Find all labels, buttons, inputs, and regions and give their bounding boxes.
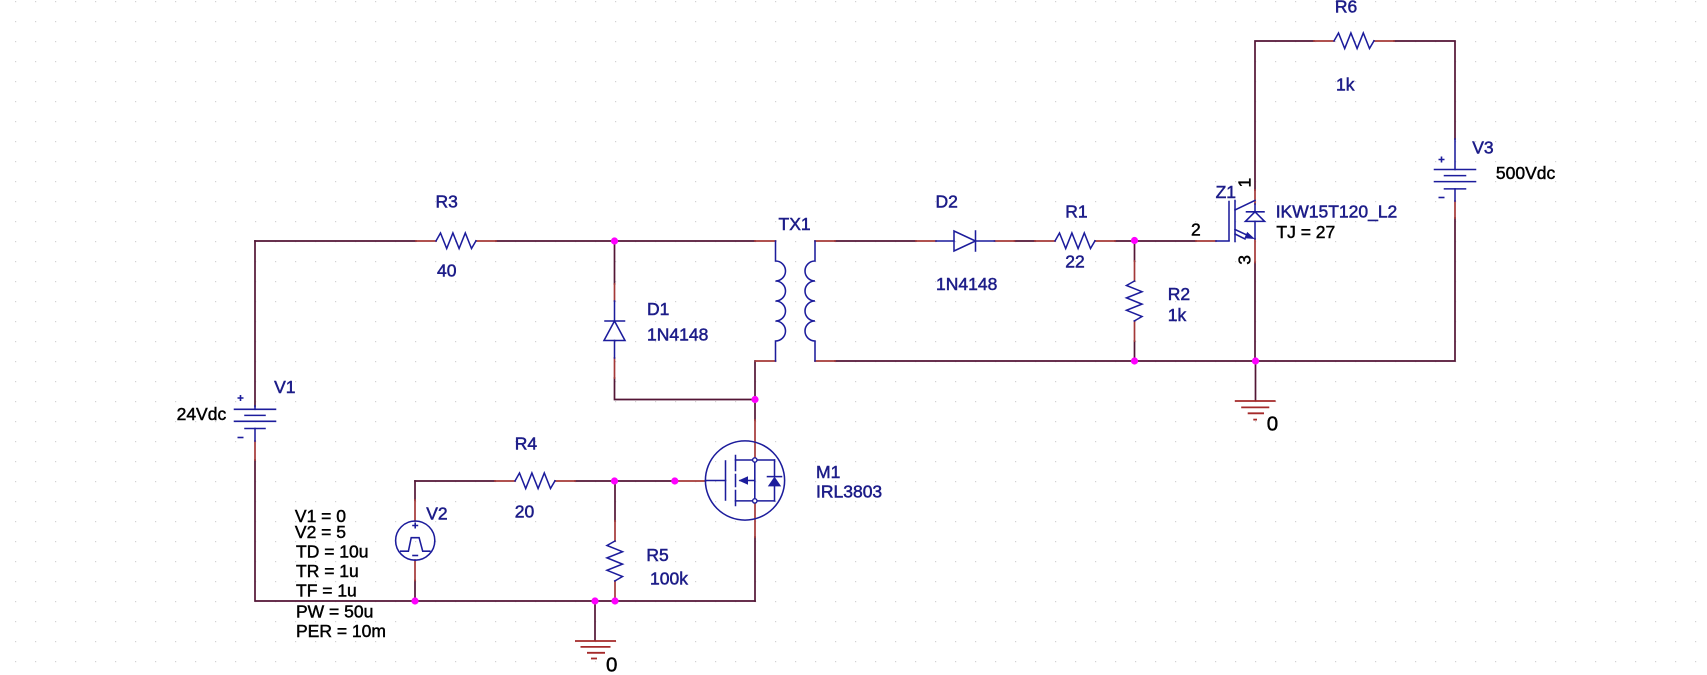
svg-text:R4: R4 bbox=[515, 433, 538, 453]
svg-text:D2: D2 bbox=[936, 192, 958, 212]
svg-text:3: 3 bbox=[1235, 255, 1255, 265]
svg-text:24Vdc: 24Vdc bbox=[177, 404, 227, 424]
svg-text:500Vdc: 500Vdc bbox=[1496, 163, 1556, 183]
svg-text:V3: V3 bbox=[1472, 138, 1493, 158]
svg-text:1k: 1k bbox=[1336, 74, 1355, 94]
svg-text:0: 0 bbox=[606, 654, 617, 675]
svg-text:R2: R2 bbox=[1168, 284, 1190, 304]
svg-text:R3: R3 bbox=[436, 191, 458, 211]
svg-text:IKW15T120_L2: IKW15T120_L2 bbox=[1276, 202, 1398, 223]
svg-text:TX1: TX1 bbox=[779, 214, 811, 234]
svg-text:PER = 10m: PER = 10m bbox=[296, 621, 386, 641]
svg-text:R1: R1 bbox=[1065, 201, 1087, 221]
svg-text:V2 = 5: V2 = 5 bbox=[295, 522, 346, 542]
svg-text:1: 1 bbox=[1235, 178, 1255, 188]
svg-text:TF = 1u: TF = 1u bbox=[296, 581, 357, 601]
svg-text:TD = 10u: TD = 10u bbox=[296, 542, 368, 562]
svg-text:Z1: Z1 bbox=[1216, 182, 1236, 202]
svg-text:0: 0 bbox=[1267, 412, 1278, 435]
svg-text:V1: V1 bbox=[274, 377, 295, 397]
svg-text:PW = 50u: PW = 50u bbox=[296, 602, 373, 622]
svg-text:TJ = 27: TJ = 27 bbox=[1276, 222, 1335, 242]
svg-text:R6: R6 bbox=[1335, 0, 1357, 17]
svg-text:D1: D1 bbox=[647, 299, 669, 319]
svg-text:R5: R5 bbox=[646, 545, 668, 565]
svg-text:TR = 1u: TR = 1u bbox=[296, 561, 359, 581]
svg-text:20: 20 bbox=[515, 501, 535, 521]
svg-text:22: 22 bbox=[1065, 251, 1084, 271]
svg-text:1N4148: 1N4148 bbox=[647, 325, 708, 345]
svg-text:IRL3803: IRL3803 bbox=[816, 482, 882, 502]
svg-text:2: 2 bbox=[1191, 220, 1201, 240]
svg-text:100k: 100k bbox=[650, 568, 688, 588]
svg-text:V2: V2 bbox=[426, 504, 447, 524]
svg-text:M1: M1 bbox=[816, 462, 840, 482]
svg-text:40: 40 bbox=[437, 261, 457, 281]
svg-text:1N4148: 1N4148 bbox=[936, 274, 997, 294]
svg-text:1k: 1k bbox=[1168, 305, 1187, 325]
